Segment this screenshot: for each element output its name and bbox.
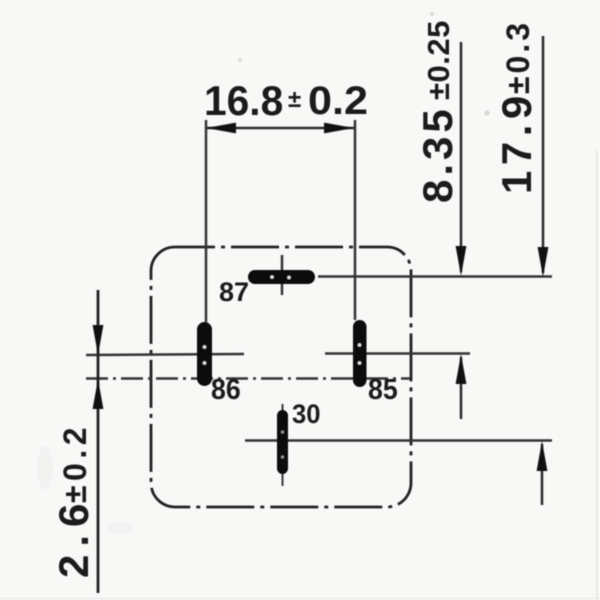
dimension 17.9±0.3 : value label (493, 90, 540, 194)
dimension 8.35±0.25 : dim line with top arrow (460, 42, 463, 272)
dimension 2.6±0.2 : value label (50, 496, 97, 578)
dimension 2.6±0.2 : dim line (97, 290, 100, 593)
dimension 2.6±0.2 : lower arrow (up) (93, 379, 104, 409)
dimension 8.35±0.25 : bottom arrow with tail (460, 357, 463, 419)
svg-text:8.35: 8.35 (414, 105, 461, 203)
extension line from pin 87 (net 87 level) (318, 275, 552, 278)
pin 86 blade (197, 322, 212, 386)
dimension 2.6±0.2 : upper arrow (down) (93, 325, 104, 355)
svg-text:17.9: 17.9 (493, 90, 540, 194)
pin 85 blade (353, 320, 367, 387)
centerline through pin 85 (node line) (325, 352, 470, 355)
dimension 16.8±0.2 : right extension line (to pin 85) (354, 120, 357, 320)
svg-text:30: 30 (292, 398, 321, 429)
pin 30 blade (277, 410, 288, 474)
svg-text:±0.2: ±0.2 (57, 423, 93, 503)
scan artifacts (596, 150, 598, 600)
svg-text:2.6: 2.6 (50, 496, 97, 578)
svg-text:86: 86 (211, 373, 241, 405)
label pin 85 (368, 373, 398, 405)
label pin 30 (292, 398, 321, 429)
svg-text:0.2: 0.2 (308, 77, 368, 122)
label pin 86 (211, 373, 241, 405)
pin 87 blade (248, 270, 315, 284)
body horizontal centerline (86, 377, 410, 380)
dimension 16.8±0.2 : left extension line (to pin 86) (205, 120, 208, 322)
centerline through pins 86 (node line) (86, 354, 244, 355)
svg-text:±0.25: ±0.25 (421, 20, 456, 100)
dimension 16.8±0.2 : value label (204, 77, 283, 124)
svg-text:16.8: 16.8 (204, 77, 283, 124)
body vertical centerline through pin 87 (281, 255, 284, 295)
svg-text:±0.3: ±0.3 (500, 20, 536, 94)
vertical centerline stub through pin 30 (282, 404, 284, 486)
centerline through pin 30 (245, 439, 552, 442)
dimension 8.35±0.25 : value label (414, 105, 461, 203)
dimension 16.8±0.2 : left arrow (206, 123, 236, 134)
relay body outline (dash-dot rounded square) (151, 247, 411, 507)
svg-text:85: 85 (368, 373, 398, 405)
svg-text:87: 87 (219, 277, 249, 307)
dimension 17.9±0.3 : bottom arrow with tail (541, 444, 544, 505)
dimension 17.9±0.3 : dim line with top arrow (542, 36, 545, 273)
dimension 16.8±0.2 : dim line (206, 127, 354, 130)
svg-text:±: ± (288, 86, 301, 113)
dimension 16.8±0.2 : right arrow (324, 123, 354, 134)
